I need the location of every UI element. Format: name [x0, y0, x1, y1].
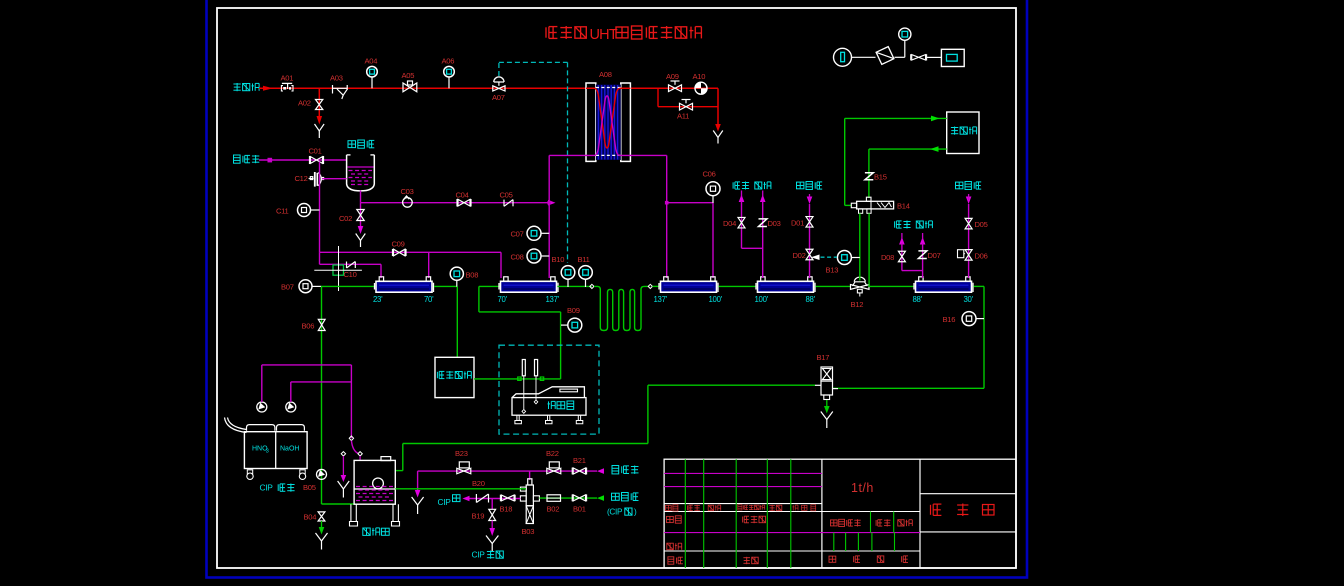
wire C01 branch down: [319, 162, 321, 253]
table white row 2: [664, 511, 920, 513]
header 签名: [769, 505, 775, 511]
svg-text:B20: B20: [472, 479, 485, 488]
flow arrow CIP return: [462, 496, 469, 502]
cold water feed D01: [807, 197, 813, 205]
svg-text:D07: D07: [928, 251, 941, 260]
svg-text:B02: B02: [547, 505, 560, 514]
C10 crosshair: [338, 246, 340, 291]
wire filler supply drop: [844, 118, 846, 205]
white drawing border: [217, 8, 1016, 568]
aseptic valve B03: [528, 479, 532, 485]
svg-text:C12: C12: [295, 174, 308, 183]
svg-text:CIP: CIP: [438, 497, 452, 507]
drain symbol spare: [338, 481, 350, 489]
svg-text:D06: D06: [975, 252, 988, 261]
wire CIP supply 1: [261, 365, 263, 402]
svg-text:A04: A04: [365, 57, 378, 66]
flow arrow steam drain: [715, 124, 721, 132]
wire U4 to B12: [816, 285, 851, 287]
svg-text:D05: D05: [975, 220, 988, 229]
flow sensor C10 square: [333, 265, 344, 275]
label 软水进 bottom: [612, 466, 619, 474]
balance tank legs: [350, 504, 358, 526]
label 清放 1: [733, 182, 740, 189]
svg-text:B16: B16: [943, 315, 956, 324]
heat exchanger section 70&#39;/137&#39;: [501, 281, 557, 292]
wire CIP supply 2: [290, 382, 292, 402]
header 标记: [666, 505, 672, 510]
svg-text:D01: D01: [791, 219, 804, 228]
svg-text:B23: B23: [455, 449, 468, 458]
wire U2 to coil: [558, 285, 592, 287]
wire riser top run: [479, 311, 561, 313]
svg-text:137': 137': [654, 295, 668, 304]
svg-text:100': 100': [755, 295, 769, 304]
svg-text:A07: A07: [492, 93, 505, 102]
homogenizer plunger 2: [535, 360, 538, 376]
node hose diamond bottom: [358, 452, 362, 456]
svg-text:3: 3: [266, 449, 269, 455]
svg-text:B08: B08: [466, 271, 479, 280]
wire A08 left water riser: [548, 155, 550, 278]
flow arrow C02 drain: [358, 226, 364, 234]
svg-text:B18: B18: [500, 505, 513, 514]
svg-text:B21: B21: [573, 456, 586, 465]
svg-text:B07: B07: [281, 283, 294, 292]
instrument B10: [567, 280, 569, 288]
svg-text:88': 88': [806, 295, 816, 304]
svg-text:C01: C01: [309, 147, 322, 156]
svg-text:CIP: CIP: [472, 550, 486, 560]
cell 批准: [743, 557, 750, 564]
svg-text:B10: B10: [552, 255, 565, 264]
label 回流 1: [755, 182, 762, 189]
CIP tank body: [244, 432, 307, 469]
drawing name 流程图: [931, 504, 942, 515]
instrument C11: [298, 204, 311, 217]
label 回流 2: [916, 221, 923, 228]
node spare hose diamond: [341, 452, 345, 456]
valve B19: [489, 509, 496, 520]
label 冷水进 1: [797, 182, 804, 189]
label 物料进: [612, 493, 620, 500]
svg-text:A02: A02: [298, 99, 311, 108]
drain symbol B17: [821, 412, 833, 420]
valve C09: [394, 249, 406, 256]
title block divider 1: [821, 459, 823, 568]
label 均质机: [548, 401, 556, 409]
wire B14 to B12: [859, 213, 861, 280]
svg-text:70': 70': [498, 295, 508, 304]
header 比例: [898, 520, 904, 526]
node hose diamond top: [349, 436, 353, 441]
wire drop to exchanger1 right port: [428, 252, 430, 278]
drain symbol steam outlet: [713, 131, 723, 138]
svg-text:88': 88': [913, 295, 923, 304]
valve D04: [738, 217, 745, 228]
check valve C10: [346, 262, 348, 269]
wire tank outlet down: [360, 191, 362, 203]
return riser D03: [760, 195, 766, 203]
valve B23: [459, 462, 469, 468]
valve D01: [806, 217, 813, 228]
svg-text:B11: B11: [578, 255, 590, 264]
homogenizer dashed enclosure: [499, 345, 599, 434]
CIP hose curve: [351, 441, 357, 454]
wire soft water drain drop: [417, 471, 419, 490]
divert valve B17: [821, 367, 833, 381]
CIP pump 2: [286, 402, 296, 412]
valve B04: [318, 512, 325, 521]
pump A10: [695, 82, 707, 94]
heat exchanger A08 left plate: [586, 83, 596, 161]
legend stem: [904, 40, 906, 57]
balance tank water: [356, 486, 394, 488]
node diamond coil inlet: [590, 284, 594, 288]
title block divider 2: [919, 459, 921, 568]
strainer A03: [332, 85, 334, 94]
node junction hot water left: [547, 201, 551, 205]
svg-text:A10: A10: [693, 72, 706, 81]
flow arrow B19 drain: [491, 521, 493, 529]
right column rows: [920, 493, 1016, 495]
label 蒸汽入 steam-in: [233, 83, 240, 91]
wire B14 bypass leg: [868, 213, 870, 287]
instrument B08: [456, 280, 458, 287]
valve A02: [316, 100, 323, 110]
left table magenta rows: [664, 472, 822, 474]
drain riser D04: [739, 195, 745, 203]
wire filler supply: [845, 117, 947, 119]
valve D02: [806, 249, 813, 260]
valve D08: [898, 251, 905, 262]
homogenizer feet: [515, 415, 522, 424]
cell 设计: [667, 516, 674, 522]
svg-text:C05: C05: [500, 191, 513, 200]
title 热灌装UHT杀菌机流程图: [546, 27, 557, 39]
svg-text:CIP: CIP: [260, 483, 274, 493]
legend valve: [912, 55, 926, 60]
spray ball D03: [759, 219, 767, 227]
svg-text:137': 137': [546, 295, 560, 304]
instrument B13: [837, 251, 851, 265]
legend line 1: [852, 56, 876, 58]
wire C06 drop to exchanger: [712, 203, 714, 278]
valve B22: [549, 462, 559, 468]
wire U2 left stub: [479, 285, 500, 287]
svg-text:D08: D08: [881, 253, 894, 262]
heat exchanger section 100&#39;/88&#39;: [758, 281, 814, 292]
svg-text:A09: A09: [666, 72, 679, 81]
svg-text:B06: B06: [302, 322, 315, 331]
legend line 2: [895, 56, 905, 58]
svg-text:C09: C09: [392, 240, 405, 249]
svg-text:B03: B03: [522, 527, 535, 536]
blue outer border: [207, 0, 1028, 578]
valve A05: [403, 83, 417, 92]
svg-text:A08: A08: [599, 70, 612, 79]
instrument A04: [371, 77, 373, 88]
A08 red product V-curve: [586, 88, 630, 148]
heat exchanger section 137&#39;/100&#39;: [661, 281, 717, 292]
heat exchanger A08 right plate: [621, 83, 631, 161]
flow arrow soft water in: [597, 468, 604, 474]
wire D08 to D07: [902, 270, 923, 272]
svg-text:B15: B15: [874, 173, 887, 182]
flow arrow filler return: [930, 146, 939, 152]
CIP pump 1: [257, 402, 267, 412]
svg-text:B17: B17: [817, 353, 830, 362]
signal dashed line A07 to B10: [498, 62, 500, 76]
node diamond coil outlet: [648, 284, 652, 288]
instrument B16: [962, 312, 976, 326]
wire U2 feed drop: [478, 286, 480, 312]
svg-text:D02: D02: [793, 251, 806, 260]
heat exchanger section 23&#39;/70&#39;: [376, 281, 432, 292]
instrument C06: [712, 196, 714, 203]
wire B12 to U5 via corner: [868, 285, 870, 288]
left table green columns: [684, 459, 686, 568]
flow arrow spare drain: [341, 475, 347, 482]
svg-text:C11: C11: [276, 207, 289, 216]
wire coil to U3: [652, 285, 659, 287]
svg-text:B05: B05: [303, 483, 316, 492]
drain symbol C02: [356, 234, 366, 241]
label 灌装机: [951, 127, 958, 135]
valve A09: [669, 85, 682, 92]
drain symbol B04: [316, 533, 328, 541]
angle valve C12: [309, 178, 314, 180]
svg-text:A01: A01: [281, 74, 294, 83]
svg-text:B13: B13: [826, 266, 839, 275]
instrument A06: [448, 77, 450, 88]
mid table small grid: [833, 533, 835, 551]
wire steam main line: [259, 87, 718, 89]
signal arrow to D02: [811, 255, 820, 261]
wire hose into tank: [359, 456, 361, 461]
aseptic tank B14: [851, 203, 856, 208]
flow arrow hot water: [548, 200, 556, 206]
wire cooling outlet drop: [983, 286, 985, 388]
flow arrow B04 drain: [321, 521, 323, 527]
wire CIP return line: [466, 498, 520, 500]
wire CIP down line: [321, 286, 323, 504]
svg-text:B01: B01: [573, 505, 586, 514]
wire steam bypass: [657, 88, 659, 106]
header 数量: [876, 520, 882, 526]
svg-text:30': 30': [964, 295, 974, 304]
filling machine box 灌装机: [947, 112, 979, 154]
node junction water right: [665, 201, 669, 205]
valve D06: [965, 250, 972, 261]
wire U1 to degas tee: [434, 285, 457, 287]
CIP return hook pipe: [228, 418, 247, 430]
valve C04: [458, 199, 470, 206]
drain symbol B19: [486, 536, 498, 544]
check valve CIP return: [475, 494, 477, 503]
node homogenizer plunger 2: [540, 377, 543, 380]
svg-text:): ): [634, 508, 637, 517]
valve B01: [573, 495, 585, 501]
svg-text:B09: B09: [567, 306, 580, 315]
svg-text:23': 23': [373, 295, 383, 304]
label 热水罐: [348, 141, 356, 148]
valve A11: [680, 103, 693, 110]
wire water to C06: [667, 202, 713, 204]
wire drop to exchanger2 left port: [500, 252, 502, 278]
flow arrow into filler: [931, 116, 940, 122]
svg-text:C03: C03: [401, 187, 414, 196]
svg-text:D04: D04: [723, 219, 736, 228]
valve B06: [318, 319, 325, 330]
flow meter B02: [547, 495, 561, 502]
spray ball D07: [918, 251, 926, 259]
valve C01: [311, 157, 323, 164]
cold water feed D05: [966, 197, 972, 205]
A08 plate pack blue stripes: [596, 85, 621, 161]
left table white row 1: [664, 503, 822, 505]
spray ball B15: [865, 173, 873, 180]
valve D05: [965, 218, 972, 229]
wire steam outlet down: [717, 88, 719, 124]
wire B19 drain drop: [491, 499, 493, 510]
label 脱气系统: [437, 371, 444, 378]
legend line 3: [927, 56, 942, 58]
wire degas drop: [456, 286, 458, 357]
wire hot water supply line: [361, 202, 550, 204]
wire lower bypass line: [319, 252, 321, 264]
wire A02 branch down: [318, 88, 320, 116]
holding tube coil: [594, 286, 648, 330]
degas box 脱气系统: [435, 357, 474, 397]
valve B21: [573, 468, 585, 474]
cell 审核: [667, 543, 674, 550]
wire degas to homogenizer: [474, 378, 561, 380]
instrument B07: [299, 280, 312, 293]
wire product return line: [833, 387, 984, 389]
wire CIP to balance tank: [322, 503, 355, 505]
control valve A07: [493, 86, 505, 91]
header 分区: [708, 505, 714, 511]
valve C02 tank drain: [360, 203, 362, 226]
wire return to balance tank: [648, 384, 815, 386]
svg-text:B14: B14: [897, 202, 910, 211]
svg-text:C07: C07: [511, 230, 524, 239]
A08 magenta water curve: [586, 96, 630, 156]
wire homogenizer riser: [560, 312, 562, 379]
check valve C05: [503, 200, 505, 207]
valve B18: [501, 495, 514, 501]
svg-text:C06: C06: [703, 170, 716, 179]
wire material inlet line: [539, 497, 597, 499]
svg-text:100': 100': [709, 295, 723, 304]
divert valve B12: [853, 282, 868, 286]
homogenizer plunger 1: [522, 360, 525, 376]
instrument B11: [585, 280, 587, 288]
wire product main line: [321, 285, 375, 287]
label 软水进 soft-water-in: [234, 155, 241, 163]
table white row 4: [664, 550, 920, 552]
header 年月日: [793, 505, 799, 510]
wire drop to exchanger1 left port: [380, 264, 382, 278]
wire U5 outlet: [974, 285, 985, 287]
wire CIP supply down: [350, 365, 352, 438]
wire B03 top feed: [529, 471, 531, 480]
label 清放 2: [895, 221, 902, 228]
wire spare drain stub: [342, 456, 344, 475]
flow arrow material in: [597, 495, 604, 501]
svg-text:C10: C10: [344, 270, 357, 279]
pump B05: [317, 469, 327, 479]
mid table green dividers: [870, 512, 872, 533]
wire A08 right water drop: [666, 155, 668, 278]
header 阶段标记: [831, 520, 838, 526]
svg-text:A11: A11: [677, 112, 689, 121]
balance tank 平衡桶: [354, 460, 395, 504]
legend instrument circle: [834, 48, 852, 66]
header 更改文件号: [738, 505, 742, 510]
svg-text:C04: C04: [456, 191, 469, 200]
svg-text:A06: A06: [442, 57, 455, 66]
title block frame: [664, 459, 1016, 568]
wire C09 line: [320, 251, 502, 253]
svg-text:70': 70': [424, 295, 434, 304]
label 平衡桶: [363, 528, 370, 535]
pump C03: [403, 198, 413, 208]
wire filler return: [869, 148, 947, 150]
svg-text:NaOH: NaOH: [280, 446, 299, 453]
cell 标准化: [743, 516, 749, 523]
CIP tank lids: [247, 425, 275, 431]
drain symbol bottom left: [412, 497, 424, 505]
sampler D06 square: [958, 250, 964, 258]
cell 共张第张: [829, 556, 836, 562]
legend box: [941, 49, 964, 66]
svg-text:C08: C08: [511, 253, 524, 262]
legend small instrument: [899, 28, 911, 40]
drain symbol below A02: [315, 124, 325, 131]
homogenizer body 均质机: [512, 398, 586, 416]
svg-text:A03: A03: [330, 74, 343, 83]
node soft water: [268, 158, 273, 163]
svg-text:UHT: UHT: [590, 27, 618, 43]
plunger rod 2: [535, 376, 537, 400]
balance tank float: [373, 478, 384, 489]
CIP tank casters: [247, 473, 253, 479]
flow arrow A02 drain: [317, 116, 323, 125]
wire soft water inlet: [259, 159, 347, 161]
drain riser D08: [899, 237, 905, 245]
svg-text:1t/h: 1t/h: [851, 481, 874, 495]
svg-text:C02: C02: [339, 214, 352, 223]
svg-text:B22: B22: [546, 449, 559, 458]
flow arrow bottom drain: [415, 490, 421, 498]
A08 dashed bottom boundary: [596, 154, 621, 156]
svg-text:B12: B12: [851, 300, 864, 309]
return riser D07: [920, 237, 926, 245]
svg-text:D03: D03: [768, 219, 781, 228]
flow arrow B17 drain: [826, 400, 828, 406]
svg-text:B19: B19: [472, 512, 485, 521]
wire U3 to U4: [719, 285, 757, 287]
wire C12 to tank: [322, 178, 347, 180]
instrument C07: [527, 226, 541, 240]
hot water tank 热水罐: [347, 155, 375, 191]
heat exchanger section 88&#39;/30&#39;: [916, 281, 972, 292]
svg-text:(CIP: (CIP: [607, 508, 623, 517]
instrument C08: [527, 249, 541, 263]
flow arrow steam: [263, 86, 273, 91]
